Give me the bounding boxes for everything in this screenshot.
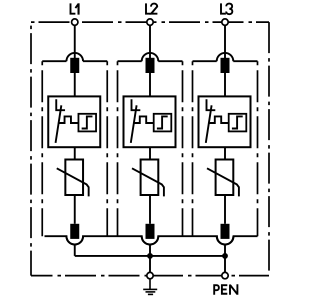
PEN terminal circle: [222, 272, 228, 278]
wire varistor to bottom disconnector: [149, 195, 151, 224]
junction node at PEN drop: [222, 253, 228, 259]
varistor body: [216, 160, 234, 196]
spark gap switch blade (diagonal): [56, 105, 62, 143]
terminal L1 circle: [72, 19, 78, 25]
trigger circuit box: [78, 114, 96, 132]
triggered spark gap unit box (L3 path): [199, 96, 251, 147]
varistor body: [141, 160, 159, 196]
disconnector top contact pin (black): [221, 58, 230, 73]
triggered spark gap unit box (L2 path): [124, 96, 176, 147]
ground symbol bar 3: [148, 293, 153, 295]
trigger circuit step symbol: [232, 116, 243, 128]
earth terminal circle: [147, 272, 153, 278]
ground symbol bar 1: [143, 288, 157, 290]
wire bottom arc to PEN bus: [224, 245, 226, 256]
spark gap electrode stub: [207, 99, 216, 110]
varistor diagonal stroke: [57, 168, 89, 196]
ground symbol stem: [149, 279, 151, 290]
module box top edge right segment: [158, 60, 182, 62]
disconnector bottom contact pin (black): [221, 224, 230, 239]
module enclosure right dashed edge: [257, 61, 259, 236]
varistor diagonal stroke: [207, 168, 239, 196]
spark gap electrode stub: [56, 99, 65, 110]
trigger pulse waveform: [133, 116, 153, 123]
net label PEN: [214, 284, 237, 295]
disconnector top arc (plug-in contact socket): [142, 53, 159, 61]
trigger pulse waveform: [58, 116, 78, 123]
module box top edge right segment: [233, 60, 257, 62]
trigger circuit box: [229, 114, 247, 132]
disconnector bottom arc (plug-in contact socket): [142, 236, 159, 244]
disconnector bottom arc (plug-in contact socket): [217, 236, 234, 244]
trigger circuit step symbol: [157, 116, 168, 128]
PEN collector bus wire: [75, 255, 225, 257]
triggered spark gap unit box (L1 path): [48, 96, 100, 147]
disconnector bottom contact pin (black): [70, 224, 79, 239]
module enclosure right dashed edge: [106, 61, 108, 236]
disconnector bottom arc (plug-in contact socket): [66, 236, 83, 244]
disconnector top contact pin (black): [146, 58, 155, 73]
terminal label L1: [71, 3, 79, 14]
module enclosure left dashed edge: [117, 61, 119, 236]
wire bus to PEN terminal: [224, 256, 226, 273]
trigger circuit box: [154, 114, 172, 132]
wire L3 terminal to disconnector: [224, 25, 226, 58]
module enclosure right dashed edge: [182, 61, 184, 236]
module box top edge left segment: [118, 60, 142, 62]
wire disconnector to spark gap: [149, 73, 151, 97]
trigger circuit step symbol: [82, 116, 93, 128]
module enclosure left dashed edge: [192, 61, 194, 236]
disconnector top arc (plug-in contact socket): [66, 53, 83, 61]
device enclosure boundary left (dash-dot): [30, 22, 32, 276]
terminal label L2: [146, 3, 157, 13]
wire varistor to bottom disconnector: [74, 195, 76, 224]
module box top edge left segment: [193, 60, 217, 62]
wire spark gap to varistor: [74, 147, 76, 159]
ground symbol bar 2: [146, 291, 156, 293]
device enclosure boundary top (dash-dot): [31, 21, 269, 23]
module enclosure left dashed edge: [41, 61, 43, 236]
wire L1 terminal to disconnector: [74, 25, 76, 58]
wire spark gap to varistor: [149, 147, 151, 159]
terminal L3 circle: [222, 19, 228, 25]
module box top edge left segment: [42, 60, 66, 62]
wire L2 terminal to disconnector: [149, 25, 151, 58]
module box bottom edge bus (with contact dips): [45, 236, 258, 244]
spark gap electrode stub: [132, 99, 141, 110]
disconnector top contact pin (black): [70, 58, 79, 73]
device enclosure boundary bottom (dash-dot): [31, 275, 269, 277]
wire spark gap to varistor: [224, 147, 226, 159]
module box top edge right segment: [83, 60, 107, 62]
varistor body: [65, 160, 83, 196]
spark gap switch blade (diagonal): [131, 105, 137, 143]
wire disconnector to spark gap: [224, 73, 226, 97]
wire bus to earth terminal: [149, 256, 151, 273]
spark gap switch blade (diagonal): [206, 105, 212, 143]
terminal label L3: [221, 3, 232, 14]
trigger pulse waveform: [208, 116, 228, 123]
varistor diagonal stroke: [132, 168, 164, 196]
wire bottom arc to PEN bus: [149, 245, 151, 256]
device enclosure boundary right (dash-dot): [268, 22, 270, 276]
wire disconnector to spark gap: [74, 73, 76, 97]
disconnector bottom contact pin (black): [146, 224, 155, 239]
wire bottom arc to PEN bus: [74, 245, 76, 256]
junction node at earth drop: [147, 253, 153, 259]
disconnector top arc (plug-in contact socket): [217, 53, 234, 61]
terminal L2 circle: [147, 19, 153, 25]
wire varistor to bottom disconnector: [224, 195, 226, 224]
